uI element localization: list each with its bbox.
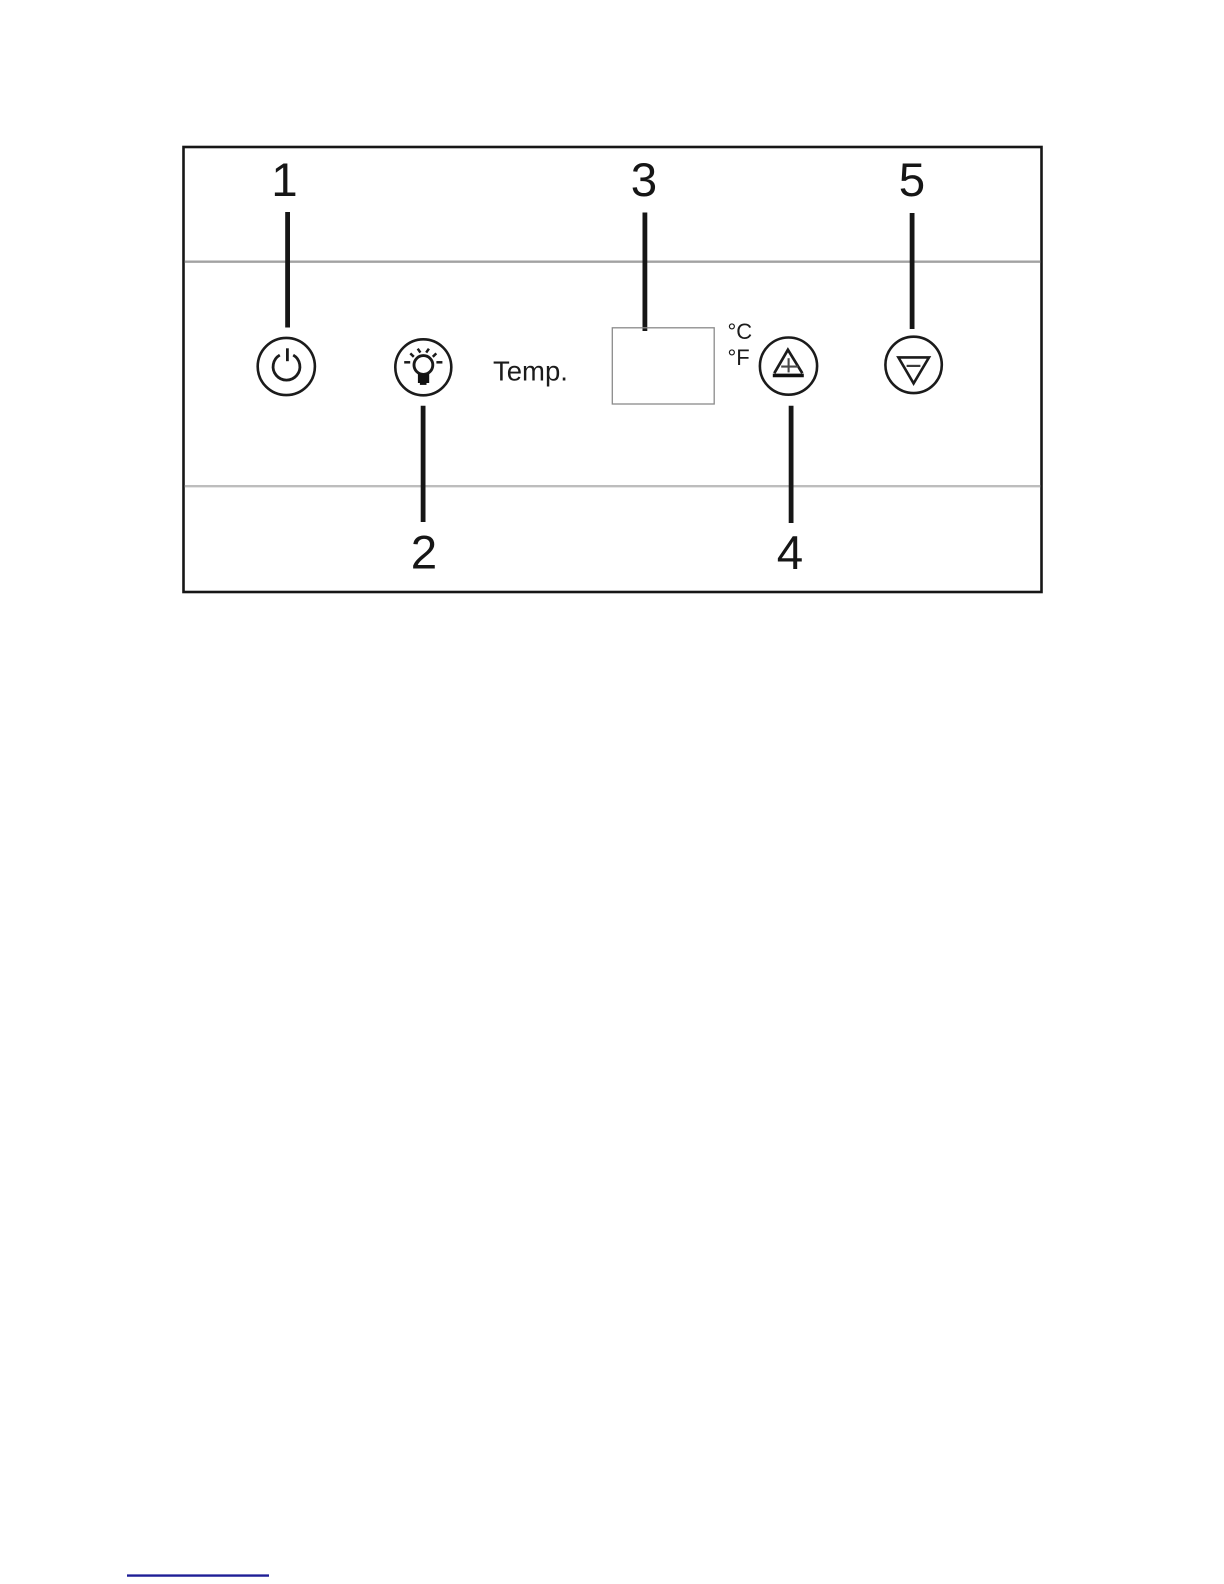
down button circle: [885, 337, 941, 393]
leader line 5: [910, 213, 915, 329]
alarm triangle sides: [774, 350, 802, 373]
svg-text:5: 5: [899, 154, 925, 207]
svg-text:°C: °C: [728, 319, 753, 344]
bulb glass: [414, 356, 433, 375]
svg-text:°F: °F: [728, 345, 750, 370]
svg-text:4: 4: [777, 527, 803, 580]
down triangle bar: [907, 365, 921, 367]
alarm triangle base: [773, 374, 804, 378]
bulb rays: [404, 349, 442, 363]
display box: [612, 328, 714, 404]
svg-text:1: 1: [271, 154, 297, 207]
footer link underline: [127, 1574, 269, 1576]
power button circle: [258, 338, 315, 395]
divider line lower: [185, 485, 1040, 487]
leader line 1: [285, 212, 290, 328]
divider line upper: [185, 261, 1040, 263]
alarm plus vertical: [788, 358, 790, 372]
leader line 4: [789, 406, 794, 523]
panel outline: [184, 147, 1042, 592]
alarm button circle: [760, 338, 817, 395]
down triangle: [898, 357, 929, 383]
svg-text:3: 3: [631, 154, 657, 207]
light button circle: [395, 339, 451, 395]
bulb base: [418, 374, 429, 384]
leader line 3: [643, 213, 648, 332]
svg-text:2: 2: [411, 527, 437, 580]
alarm plus horizontal: [781, 366, 798, 368]
svg-text:Temp.: Temp.: [493, 356, 568, 387]
leader line 2: [421, 406, 426, 522]
power icon stem: [286, 348, 289, 361]
power icon arc: [273, 355, 300, 380]
